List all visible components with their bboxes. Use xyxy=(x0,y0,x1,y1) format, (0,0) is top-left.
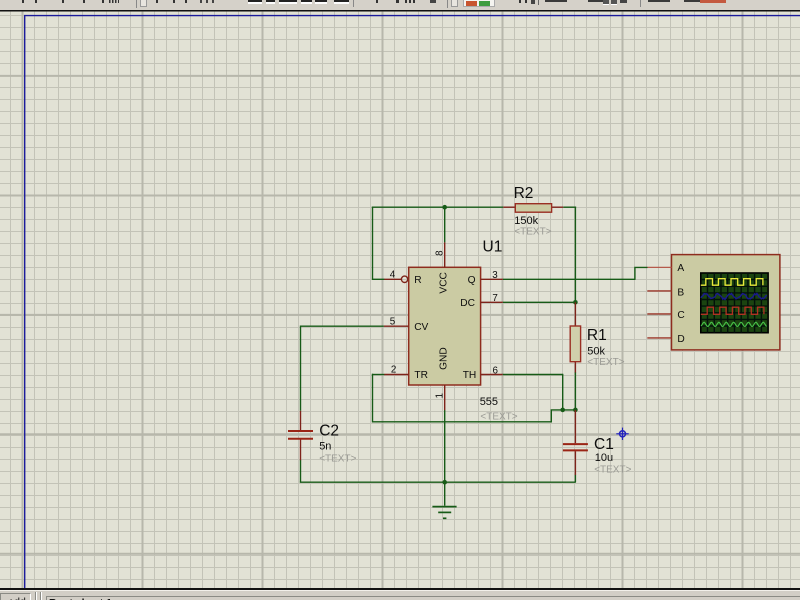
svg-text:4: 4 xyxy=(390,270,396,281)
svg-text:C2: C2 xyxy=(319,422,339,439)
svg-text:<TEXT>: <TEXT> xyxy=(319,453,356,464)
resistor R2 xyxy=(503,204,563,213)
svg-text:Q: Q xyxy=(468,275,476,286)
svg-text:TH: TH xyxy=(463,370,477,381)
pin 1 stub xyxy=(444,385,446,410)
scope trace D (green wave) xyxy=(701,322,767,326)
IC U1 555 body xyxy=(409,267,481,385)
toolbar strip (bottom edge of toolbar icons) xyxy=(0,0,800,10)
wire: step up toward channel A xyxy=(635,267,648,280)
scope trace B (blue sine) xyxy=(701,294,767,300)
junction dot at VCC rail / pin8 xyxy=(442,205,447,210)
origin marker (blue target) xyxy=(616,428,628,440)
svg-text:<TEXT>: <TEXT> xyxy=(514,227,551,238)
svg-text:R1: R1 xyxy=(587,327,607,344)
svg-text:C: C xyxy=(677,310,684,321)
svg-text:2: 2 xyxy=(391,365,396,376)
resistor R1 xyxy=(570,302,580,372)
svg-text:A: A xyxy=(677,263,684,274)
svg-text:D: D xyxy=(677,334,684,345)
capacitor C2 xyxy=(288,411,313,460)
wire: R2 right to corner xyxy=(563,206,576,208)
wire: Q (pin3) run to scope xyxy=(503,278,635,280)
svg-text:GND: GND xyxy=(439,347,450,370)
scope pin B stub xyxy=(647,290,671,292)
canvas bottom black line xyxy=(0,588,800,590)
pin 6 stub xyxy=(481,374,503,376)
junction dot at TH node xyxy=(560,408,565,413)
svg-text:<TEXT>: <TEXT> xyxy=(587,357,624,368)
wire: DC (pin7) to R1 top node xyxy=(503,301,576,303)
pin 2 stub xyxy=(384,374,408,376)
wire: short horizontal into pin 4 xyxy=(372,278,385,280)
pin 8 stub xyxy=(444,242,446,267)
svg-text:U1: U1 xyxy=(483,239,503,256)
svg-text:10u: 10u xyxy=(595,452,613,464)
wire: VCC top rail from left corner to R2 xyxy=(372,206,503,208)
svg-text:<TEXT>: <TEXT> xyxy=(480,411,517,422)
svg-text:DC: DC xyxy=(460,298,475,309)
junction dot at DC / R1 top xyxy=(573,300,578,305)
svg-text:1: 1 xyxy=(435,393,446,398)
wire: ground rail xyxy=(301,481,576,484)
wire: TH (pin6) run right xyxy=(503,374,563,376)
ground xyxy=(432,507,456,519)
pin 3 stub xyxy=(481,278,503,280)
junction dot at ground rail xyxy=(442,480,447,485)
wire: C1 bottom green to rail xyxy=(574,475,576,482)
svg-text:50k: 50k xyxy=(587,346,605,358)
wire: TR loop down xyxy=(373,374,577,422)
junction dot at R1/C1 node xyxy=(573,408,578,413)
oscilloscope body xyxy=(672,255,780,350)
wire: TH drop to node row xyxy=(562,374,564,410)
svg-text:C1: C1 xyxy=(594,436,614,453)
svg-text:5n: 5n xyxy=(319,440,331,452)
status bar xyxy=(0,590,800,600)
black line under toolbar xyxy=(0,10,800,12)
svg-text:R2: R2 xyxy=(514,185,534,202)
wire: R1 bottom green to node xyxy=(574,372,576,410)
wire: C2 bottom green xyxy=(300,460,302,483)
scope pin C stub xyxy=(647,313,671,315)
svg-text:7: 7 xyxy=(492,293,497,304)
wire: TR short into pin 2 xyxy=(372,374,385,376)
pin 5 stub xyxy=(384,325,409,327)
scope trace C (red square) xyxy=(701,307,764,314)
svg-text:<TEXT>: <TEXT> xyxy=(594,464,631,475)
svg-text:5: 5 xyxy=(390,317,396,328)
svg-text:TR: TR xyxy=(414,370,428,381)
scope pin A stub xyxy=(648,266,672,268)
svg-text:150k: 150k xyxy=(514,215,538,227)
svg-text:6: 6 xyxy=(493,366,499,377)
wire: VCC drop to pin 8 xyxy=(444,207,446,243)
svg-text:CV: CV xyxy=(414,322,428,333)
svg-text:3: 3 xyxy=(492,270,498,281)
capacitor C1 xyxy=(563,410,588,475)
wire: right vertical down to DC node xyxy=(574,207,576,303)
svg-text:8: 8 xyxy=(435,250,446,256)
pin 7 stub xyxy=(481,301,503,303)
svg-text:555: 555 xyxy=(480,396,498,408)
scope pin D stub xyxy=(647,337,671,339)
svg-text:R: R xyxy=(414,275,421,286)
scope screen xyxy=(701,273,768,333)
svg-text:B: B xyxy=(677,287,684,298)
pin 4 stub with bubble xyxy=(384,276,408,282)
wire: GND pin down to rail and stub below xyxy=(444,410,446,506)
wire: left vertical down to pin R row xyxy=(372,207,374,280)
scope trace A (yellow square) xyxy=(701,279,763,286)
svg-text:VCC: VCC xyxy=(439,272,450,294)
wire: CV run left and down to C2 xyxy=(301,326,384,411)
